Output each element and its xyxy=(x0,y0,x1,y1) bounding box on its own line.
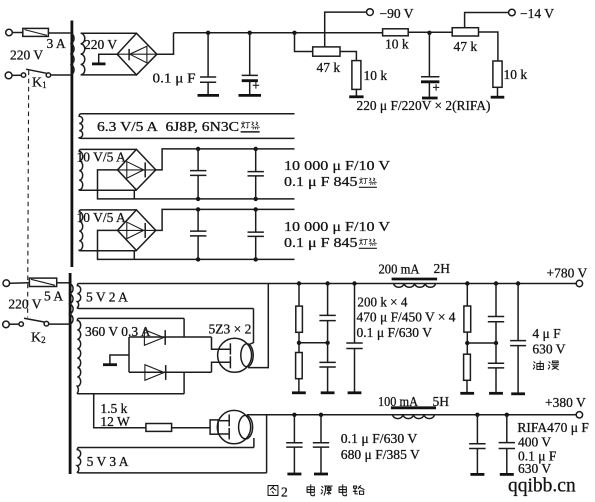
choke L1 2H xyxy=(392,279,438,287)
switch K1 xyxy=(5,69,50,79)
terminal AC input 1 xyxy=(6,29,13,36)
capacitor RIFA 470uF xyxy=(469,415,486,475)
svg-text:400 V: 400 V xyxy=(518,435,551,450)
node xyxy=(248,31,252,35)
node xyxy=(325,341,329,345)
wire 5V3A top to V2 filament xyxy=(253,438,255,448)
diode D2 xyxy=(145,365,166,381)
label 0.1uF 845 filament (1) xyxy=(284,174,377,189)
wire V2 filament to +380 rail xyxy=(247,414,576,416)
svg-text:47 k: 47 k xyxy=(454,39,478,54)
diode inside B3 xyxy=(127,222,145,239)
tube V2 plate link box xyxy=(210,420,218,434)
bridge rectifier B3 xyxy=(118,210,156,251)
svg-text:3 A: 3 A xyxy=(47,36,66,51)
node xyxy=(516,281,520,285)
svg-text:0.1 μ F/630 V: 0.1 μ F/630 V xyxy=(357,325,433,340)
wire B2 output xyxy=(156,149,295,170)
svg-text:10 k: 10 k xyxy=(364,68,388,83)
wire diode rail top xyxy=(129,336,212,338)
svg-text:5 V 3 A: 5 V 3 A xyxy=(87,454,129,469)
transformer T2 winding 5V 3A xyxy=(77,448,266,473)
node xyxy=(475,413,479,417)
wire hook to B3 bottom xyxy=(133,251,135,259)
wire mid junction A xyxy=(299,342,328,344)
wire B3 negative loop xyxy=(98,230,295,259)
caption figure 2 xyxy=(268,485,288,500)
capacitor 680uF/385V xyxy=(313,415,329,474)
wire mid junction B xyxy=(467,342,496,344)
svg-text:qqibb.cn: qqibb.cn xyxy=(508,476,576,497)
transformer T2 winding 5V 2A xyxy=(77,284,576,309)
capacitor 0.1uF/630V (A) xyxy=(346,284,362,393)
switch K2 xyxy=(3,318,49,327)
fuse F2 xyxy=(29,278,56,286)
tube V1 (5Z3) envelope xyxy=(218,338,252,372)
ground at 360V winding xyxy=(103,355,129,365)
capacitor 10000uF (1a) xyxy=(190,149,206,199)
resistor 47k (1) xyxy=(313,47,340,56)
svg-text:10 k: 10 k xyxy=(385,36,409,51)
node xyxy=(196,197,200,201)
node xyxy=(292,31,296,35)
wire D1 to tube V1 plate xyxy=(212,337,231,349)
node xyxy=(494,281,498,285)
terminal +780V xyxy=(576,280,582,286)
svg-text:2: 2 xyxy=(281,485,288,500)
svg-text:5 A: 5 A xyxy=(44,289,63,304)
wire D2 to tube V1 plate xyxy=(212,362,231,372)
svg-text:5H: 5H xyxy=(433,394,450,409)
wire 360V top to diode wire xyxy=(183,318,185,337)
caption power supply circuit glyphs xyxy=(307,485,364,496)
transformer T1 winding 10V (2) xyxy=(79,210,136,251)
svg-text:10 V/5 A: 10 V/5 A xyxy=(77,150,127,165)
transformer T2 primary winding xyxy=(69,284,73,325)
capacitor 470uF (B2) xyxy=(488,363,504,393)
node xyxy=(254,257,258,261)
node xyxy=(196,207,200,211)
terminal +380V xyxy=(576,412,582,418)
svg-text:220 V: 220 V xyxy=(8,297,41,312)
node xyxy=(196,257,200,261)
wire -90V bus xyxy=(174,32,383,34)
svg-text:0.1 μ F: 0.1 μ F xyxy=(153,71,197,86)
svg-text:100 mA: 100 mA xyxy=(378,394,418,409)
wire fuse to T1 primary xyxy=(48,32,70,34)
node xyxy=(427,31,431,35)
capacitor 0.1uF (2b) xyxy=(248,209,264,259)
wire 360V tap to resistor xyxy=(94,394,146,428)
wire bridge B1 output xyxy=(157,33,174,54)
svg-text:0.1 μ F 845: 0.1 μ F 845 xyxy=(284,174,358,189)
transformer T2 winding 360V xyxy=(77,318,184,393)
wire diode rail bottom xyxy=(129,371,212,373)
node xyxy=(505,413,509,417)
fuse F1 xyxy=(23,28,49,36)
svg-text:+780 V: +780 V xyxy=(547,266,588,281)
capacitor 0.1uF (1b) xyxy=(248,149,264,199)
svg-text:−14 V: −14 V xyxy=(520,6,554,21)
wire fuse to T2 primary xyxy=(57,282,69,284)
wire B2 negative loop xyxy=(98,170,295,199)
svg-text:+380 V: +380 V xyxy=(545,395,586,410)
capacitor 470uF (A2) xyxy=(319,362,335,392)
svg-text:10 000 μ F/10 V: 10 000 μ F/10 V xyxy=(284,219,390,234)
node xyxy=(494,341,498,345)
wire 5V3A bottom to +380 rail xyxy=(266,415,268,473)
transformer T1 core xyxy=(71,21,74,268)
ground under 10k xyxy=(349,89,363,96)
ground at bridge B1 xyxy=(92,54,117,64)
svg-text:200 mA: 200 mA xyxy=(379,262,420,277)
svg-text:47 k: 47 k xyxy=(317,60,341,75)
tube V2 filament xyxy=(239,415,253,439)
capacitor 220uF electrolytic xyxy=(421,33,439,98)
svg-text:5Z3 × 2: 5Z3 × 2 xyxy=(209,322,252,337)
transformer T1 primary winding xyxy=(70,33,74,75)
terminal -90V xyxy=(367,9,374,16)
svg-text:10 V/5 A: 10 V/5 A xyxy=(77,210,127,225)
svg-text:10 k: 10 k xyxy=(504,67,528,82)
svg-text:680 μ F/385 V: 680 μ F/385 V xyxy=(341,447,420,462)
choke L2 5H xyxy=(391,408,436,419)
capacitor electrolytic xyxy=(239,33,262,96)
wire xyxy=(408,31,452,33)
resistor 47k (2) xyxy=(452,28,478,36)
capacitor 10000uF (2a) xyxy=(190,209,206,259)
wire to -90V terminal xyxy=(325,12,367,47)
svg-text:−90 V: −90 V xyxy=(380,6,414,21)
wire 47k to 10k xyxy=(340,52,356,61)
bridge rectifier B2 xyxy=(118,149,156,190)
wire B3 output xyxy=(156,209,295,230)
diode inside B2 xyxy=(127,162,145,179)
svg-text:220 μ F/220V × 2(RIFA): 220 μ F/220V × 2(RIFA) xyxy=(357,98,491,113)
resistor 200k (B2) xyxy=(460,354,474,393)
tube V1 filament xyxy=(241,344,253,367)
transformer T2 core xyxy=(69,273,72,474)
capacitor 0.1uF/630V (out1) xyxy=(286,415,302,474)
svg-text:6.3 V/5 A 6J8P, 6N3C: 6.3 V/5 A 6J8P, 6N3C xyxy=(97,119,239,134)
svg-text:0.1 μ F 845: 0.1 μ F 845 xyxy=(284,235,358,250)
svg-text:2H: 2H xyxy=(434,261,451,276)
svg-text:220 V: 220 V xyxy=(10,47,43,62)
bridge rectifier B1 xyxy=(117,33,157,75)
capacitor 470uF (B1) xyxy=(488,284,504,364)
tube V2 plates xyxy=(228,415,230,440)
terminal -14V xyxy=(509,9,516,16)
svg-text:10 000 μ F/10 V: 10 000 μ F/10 V xyxy=(284,158,390,173)
node xyxy=(297,281,301,285)
node xyxy=(206,31,210,35)
wire to -14V terminal xyxy=(465,13,509,28)
resistor 200k (A1) xyxy=(296,284,303,353)
svg-text:470 μ F/450 V × 4: 470 μ F/450 V × 4 xyxy=(357,310,456,325)
node xyxy=(254,207,258,211)
svg-text:RIFA470 μ F: RIFA470 μ F xyxy=(517,420,589,435)
wire to resistor 47k xyxy=(295,33,313,52)
transformer T1 winding 10V (1) xyxy=(79,149,136,190)
wire hook to B2 bottom xyxy=(133,191,135,199)
wire joining diode anodes xyxy=(128,337,130,372)
node xyxy=(254,197,258,201)
svg-text:0.1 μ F/630 V: 0.1 μ F/630 V xyxy=(341,431,418,446)
node xyxy=(325,281,329,285)
resistor 1.5k 12W xyxy=(146,424,172,432)
tube V2 plate stubs xyxy=(218,421,229,434)
node xyxy=(465,281,469,285)
wire xyxy=(12,32,22,34)
diode D1 xyxy=(144,330,165,346)
svg-text:K1: K1 xyxy=(32,76,47,91)
svg-text:4 μ F: 4 μ F xyxy=(532,326,561,341)
label oil-immersed glyphs xyxy=(533,361,558,370)
label 0.1uF 845 filament (2) xyxy=(284,235,377,250)
label dengsi (filament) glyphs xyxy=(241,121,260,131)
node xyxy=(319,413,323,417)
node xyxy=(292,413,296,417)
resistor 200k (B1) xyxy=(464,284,471,355)
svg-text:12 W: 12 W xyxy=(100,414,130,429)
node xyxy=(352,281,356,285)
resistor 200k (A2) xyxy=(292,353,306,393)
svg-text:220 V: 220 V xyxy=(84,37,117,52)
transformer T1 winding 6.3V xyxy=(79,114,294,139)
resistor 10k vertical (2) xyxy=(493,61,502,87)
wire 47k2 to 10k2 xyxy=(479,32,498,61)
svg-text:K2: K2 xyxy=(31,331,46,346)
wire V1 filament to +780 rail xyxy=(248,284,268,368)
ganged switch link (dashed) xyxy=(28,71,29,318)
svg-text:200 k × 4: 200 k × 4 xyxy=(357,295,407,310)
tube V1 plates xyxy=(229,343,231,368)
node xyxy=(254,147,258,151)
resistor 10k vertical (1) xyxy=(352,61,361,90)
capacitor 0.1uF/630V (out2) xyxy=(499,415,515,475)
capacitor 4uF/630V oil xyxy=(510,284,526,394)
wire resistor to tube V2 xyxy=(172,427,211,429)
diode inside B1 xyxy=(129,46,147,63)
node xyxy=(297,341,301,345)
capacitor 470uF (A1) xyxy=(319,284,335,363)
resistor 10k horizontal xyxy=(383,29,409,36)
svg-text:630 V: 630 V xyxy=(518,461,551,476)
transformer T1 secondary 220V winding xyxy=(81,33,137,75)
node xyxy=(465,341,469,345)
tube V2 (866) envelope xyxy=(217,410,250,443)
wire switch to T2 primary xyxy=(49,323,69,325)
wire switch to T1 primary xyxy=(51,74,71,76)
wire 5V2A to tube V1 filament xyxy=(248,309,254,346)
wire xyxy=(10,282,30,284)
capacitor 0.1uF xyxy=(198,33,220,96)
terminal AC input 2 xyxy=(3,280,10,287)
ground under 10k (2) xyxy=(491,87,505,97)
svg-text:5 V 2 A: 5 V 2 A xyxy=(86,290,128,305)
wire 360V bottom to diode wire xyxy=(183,372,185,394)
svg-text:630 V: 630 V xyxy=(532,342,565,357)
node xyxy=(196,147,200,151)
